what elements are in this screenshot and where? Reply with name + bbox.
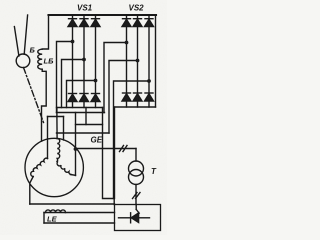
- svg-text:LБ: LБ: [44, 57, 55, 66]
- svg-text:GE: GE: [91, 136, 103, 145]
- svg-text:VS2: VS2: [129, 4, 145, 13]
- svg-text:VS1: VS1: [77, 4, 93, 13]
- svg-text:LE: LE: [47, 215, 58, 224]
- svg-text:Б: Б: [30, 46, 36, 55]
